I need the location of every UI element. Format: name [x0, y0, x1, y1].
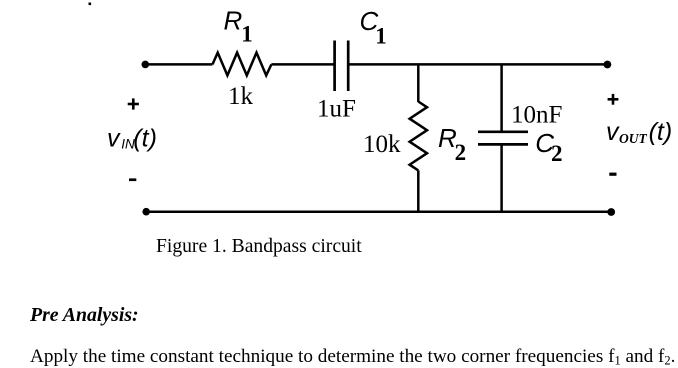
polarity + (output)	[608, 94, 619, 105]
wire: top node down to R2	[417, 64, 420, 102]
label vIN(t) input voltage	[107, 125, 157, 153]
label C2	[535, 128, 562, 166]
svg-text:2: 2	[455, 140, 467, 165]
polarity - (output)	[609, 173, 616, 176]
svg-text:1: 1	[375, 24, 387, 49]
node: input - terminal dot	[142, 208, 150, 216]
svg-text:1k: 1k	[228, 83, 254, 110]
wire: C1 to output node	[348, 63, 607, 66]
label C1	[360, 6, 387, 49]
svg-text:1: 1	[241, 21, 253, 46]
polarity - (input)	[129, 178, 136, 181]
heading: Pre Analysis:	[30, 306, 139, 326]
node: output + terminal dot	[604, 61, 612, 69]
polarity + (input)	[128, 98, 139, 109]
svg-text:2: 2	[551, 141, 563, 166]
svg-text:1uF: 1uF	[317, 95, 356, 122]
wire: C2 to bottom rail	[500, 144, 503, 211]
paragraph: Apply the time constant technique ...	[30, 347, 675, 367]
svg-text:OUT: OUT	[619, 131, 647, 146]
wire: input to R1	[145, 63, 212, 66]
capacitor C1 left plate	[333, 41, 336, 92]
capacitor C1 right plate	[347, 41, 350, 92]
svg-text:10k: 10k	[363, 131, 401, 158]
svg-text:(t): (t)	[133, 125, 157, 153]
resistor R2 (vertical zigzag)	[410, 102, 427, 171]
svg-text:v: v	[107, 125, 121, 153]
wire: R1 to C1	[271, 63, 334, 66]
wire: bottom rail	[146, 210, 611, 213]
stray ink dot	[89, 3, 92, 6]
caption: Figure 1. Bandpass circuit	[156, 237, 362, 257]
svg-text:R: R	[224, 5, 243, 35]
node: input + terminal dot	[142, 61, 150, 69]
label vOUT(t) output voltage	[606, 118, 672, 146]
svg-text:10nF: 10nF	[511, 101, 562, 128]
capacitor C2 bottom plate	[478, 143, 528, 146]
label R2	[438, 123, 466, 165]
wire: top node down to C2	[500, 64, 503, 131]
svg-text:v: v	[606, 118, 620, 146]
label R1	[224, 5, 253, 46]
capacitor C2 top plate	[478, 130, 528, 133]
node: output - terminal dot	[607, 208, 615, 216]
svg-text:(t): (t)	[649, 118, 673, 146]
wire: R2 to bottom rail	[417, 170, 420, 211]
resistor R1 (zigzag)	[213, 53, 272, 76]
